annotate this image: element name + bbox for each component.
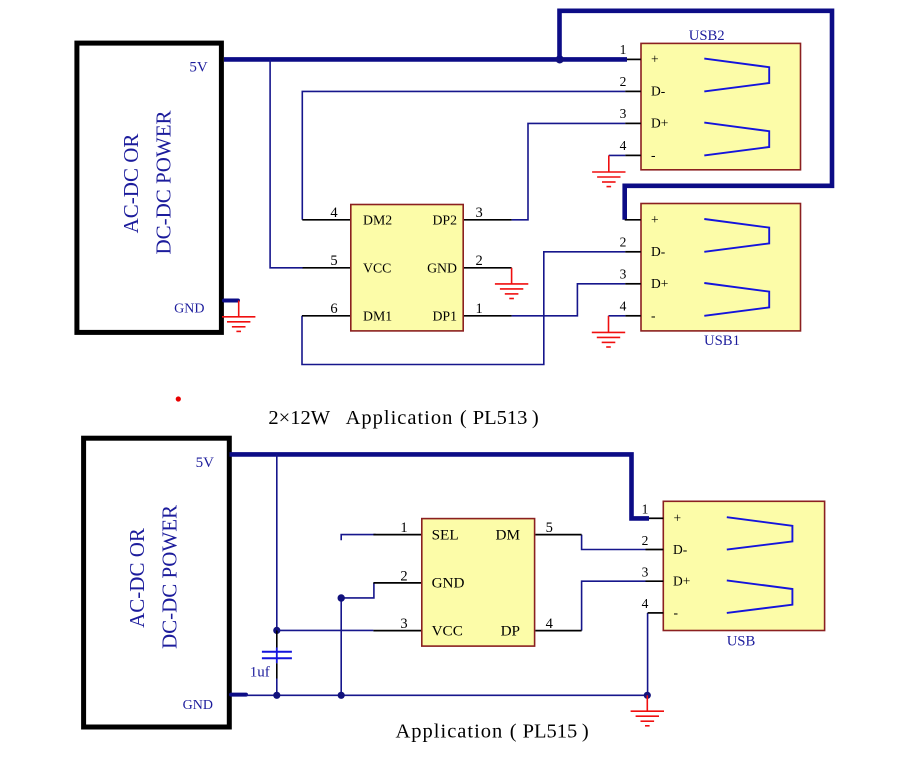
svg-text:4: 4 (330, 205, 338, 221)
wire: U2 DP to USB D+ (582, 581, 646, 630)
svg-text:3: 3 (475, 205, 482, 221)
svg-text:5V: 5V (189, 59, 208, 75)
wire: USB2 D- to U1 DM2 (302, 91, 625, 219)
wire: U1 DP1 to USB1 D+ (512, 284, 626, 316)
power supply block PS2 (AC-DC OR DC-DC POWER, bottom) (84, 438, 230, 727)
svg-text:DC-DC POWER: DC-DC POWER (152, 110, 176, 254)
svg-text:D+: D+ (673, 574, 690, 589)
svg-text:2: 2 (475, 253, 482, 269)
wire: USB1 pin4 to ground (609, 315, 626, 317)
wire: U2 DM to USB D- (582, 535, 646, 550)
svg-text:DP: DP (501, 623, 520, 640)
svg-text:DP1: DP1 (432, 308, 457, 323)
svg-text:VCC: VCC (363, 260, 391, 275)
node: junction dot GND rail at USB ground (644, 692, 651, 699)
svg-text:5: 5 (546, 520, 553, 536)
pin 3 USB2 D+ (620, 106, 641, 123)
svg-text:+: + (674, 510, 682, 525)
svg-text:DM: DM (496, 527, 521, 544)
ground: USB2 pin4 ground (592, 155, 625, 186)
wire: U1 DM1 to USB1 D- (302, 252, 625, 365)
pin 5 U1 VCC (303, 253, 350, 269)
svg-text:DP2: DP2 (432, 212, 457, 227)
svg-text:GND: GND (432, 575, 465, 592)
wire: U2 GND pin to GND rail (341, 583, 374, 695)
pin 1 USB + (642, 501, 664, 518)
svg-text:4: 4 (620, 298, 627, 313)
node: junction dot GND rail at x341 (338, 692, 345, 699)
wire: U2 SEL wire with stub tick (341, 535, 376, 541)
pin 5 U2 DM (535, 520, 581, 536)
node: junction dot at cap top (273, 627, 280, 634)
svg-text:GND: GND (174, 302, 204, 317)
svg-text:DM1: DM1 (363, 308, 392, 323)
svg-text:D-: D- (651, 84, 666, 99)
wire: PS1 GND stub (224, 299, 238, 303)
pin 3 USB D+ (642, 564, 664, 581)
IC U2 (PL515) (422, 519, 535, 647)
wire: thick 5V loop to USB1 pin1 (560, 11, 833, 220)
node: 5V junction dot (556, 55, 564, 63)
ground: PS1 ground (222, 301, 255, 332)
pin 1 USB1 + (625, 219, 641, 221)
IC U1 (PL513) (351, 205, 463, 331)
svg-text:4: 4 (642, 596, 649, 611)
wire: 5V drop to VCC rail (276, 454, 278, 630)
svg-text:3: 3 (642, 564, 649, 579)
svg-text:-: - (674, 605, 679, 620)
wire: PS2 GND stub (231, 693, 246, 697)
svg-text:4: 4 (546, 616, 554, 632)
svg-text:AC-DC OR: AC-DC OR (125, 528, 149, 628)
svg-text:3: 3 (620, 266, 627, 281)
svg-text:2: 2 (620, 74, 627, 89)
svg-text:-: - (651, 147, 656, 162)
svg-text:1: 1 (475, 301, 482, 317)
node: junction dot on GND wire corner (338, 594, 345, 601)
node: red reference dot (176, 396, 181, 401)
svg-text:Application(PL515): Application(PL515) (396, 720, 589, 742)
ground: GND rail ground (631, 695, 664, 726)
svg-text:1uf: 1uf (250, 665, 270, 681)
pin 4 U2 DP (535, 616, 581, 632)
connector USB1 (641, 204, 801, 350)
pin 2 USB1 D- (620, 234, 641, 251)
wire: 5V to U1 VCC (270, 59, 303, 267)
svg-text:D-: D- (673, 542, 688, 557)
pin 2 U2 GND (373, 568, 421, 584)
svg-text:2×12WApplication(PL513): 2×12WApplication(PL513) (268, 407, 538, 429)
svg-text:D-: D- (651, 244, 666, 259)
svg-text:USB2: USB2 (689, 28, 725, 44)
svg-text:SEL: SEL (432, 527, 459, 544)
svg-text:1: 1 (620, 42, 627, 57)
pin 3 USB1 D+ (620, 266, 641, 283)
connector USB2 (641, 28, 801, 170)
pin 4 U1 DM2 (302, 205, 350, 221)
wire: GND rail (246, 694, 647, 696)
svg-text:6: 6 (330, 301, 337, 317)
svg-text:4: 4 (620, 138, 627, 153)
wire: thick 5V bus from PS2 to USB pin1 (230, 454, 650, 518)
pin 2 USB2 D- (620, 74, 641, 91)
pin 4 USB - (642, 596, 664, 613)
wire: USB pin4 down to GND rail (647, 613, 649, 695)
pin 1 USB2 + (620, 42, 641, 59)
svg-text:5V: 5V (196, 455, 215, 471)
pin 2 U1 GND (464, 253, 512, 269)
wire: thick 5V bus from PS1 (224, 57, 627, 62)
ground: USB1 pin4 ground (592, 316, 625, 347)
svg-text:GND: GND (183, 698, 213, 713)
svg-text:5: 5 (330, 253, 337, 269)
svg-text:+: + (651, 51, 659, 66)
svg-text:3: 3 (400, 616, 407, 632)
pin 1 U1 DP1 (464, 301, 512, 317)
wire: U1 DP2 to USB2 D+ (512, 123, 626, 219)
svg-text:AC-DC OR: AC-DC OR (119, 134, 143, 234)
svg-text:2: 2 (620, 234, 627, 249)
svg-text:-: - (651, 308, 656, 323)
wire: VCC rail to U2 VCC (277, 629, 374, 631)
node: junction dot cap bottom on GND rail (273, 692, 280, 699)
pin 6 U1 DM1 (302, 301, 350, 317)
svg-text:1: 1 (642, 501, 649, 516)
svg-text:D+: D+ (651, 276, 668, 291)
svg-text:+: + (651, 212, 659, 227)
power supply block PS1 (AC-DC OR DC-DC POWER, top) (77, 43, 222, 332)
svg-text:USB1: USB1 (704, 333, 740, 349)
pin 3 U2 VCC (373, 616, 421, 632)
svg-text:VCC: VCC (432, 623, 463, 640)
capacitor C1 1uf (250, 630, 292, 695)
svg-text:3: 3 (620, 106, 627, 121)
svg-text:D+: D+ (651, 116, 668, 131)
pin 1 U2 SEL (373, 520, 421, 536)
connector USB (bottom) (663, 501, 824, 649)
svg-text:DC-DC POWER: DC-DC POWER (158, 505, 182, 649)
ground: U1 GND pin ground (495, 268, 528, 299)
pin 3 U1 DP2 (464, 205, 512, 221)
svg-text:GND: GND (427, 260, 457, 275)
svg-text:2: 2 (642, 533, 649, 548)
wire: USB2 pin4 to ground (609, 154, 625, 156)
svg-text:2: 2 (400, 568, 407, 584)
pin 4 USB1 - (620, 298, 641, 315)
svg-text:USB: USB (727, 633, 756, 649)
pin 2 USB D- (642, 533, 664, 550)
svg-text:DM2: DM2 (363, 212, 392, 227)
svg-text:1: 1 (400, 520, 407, 536)
pin 4 USB2 - (620, 138, 641, 155)
